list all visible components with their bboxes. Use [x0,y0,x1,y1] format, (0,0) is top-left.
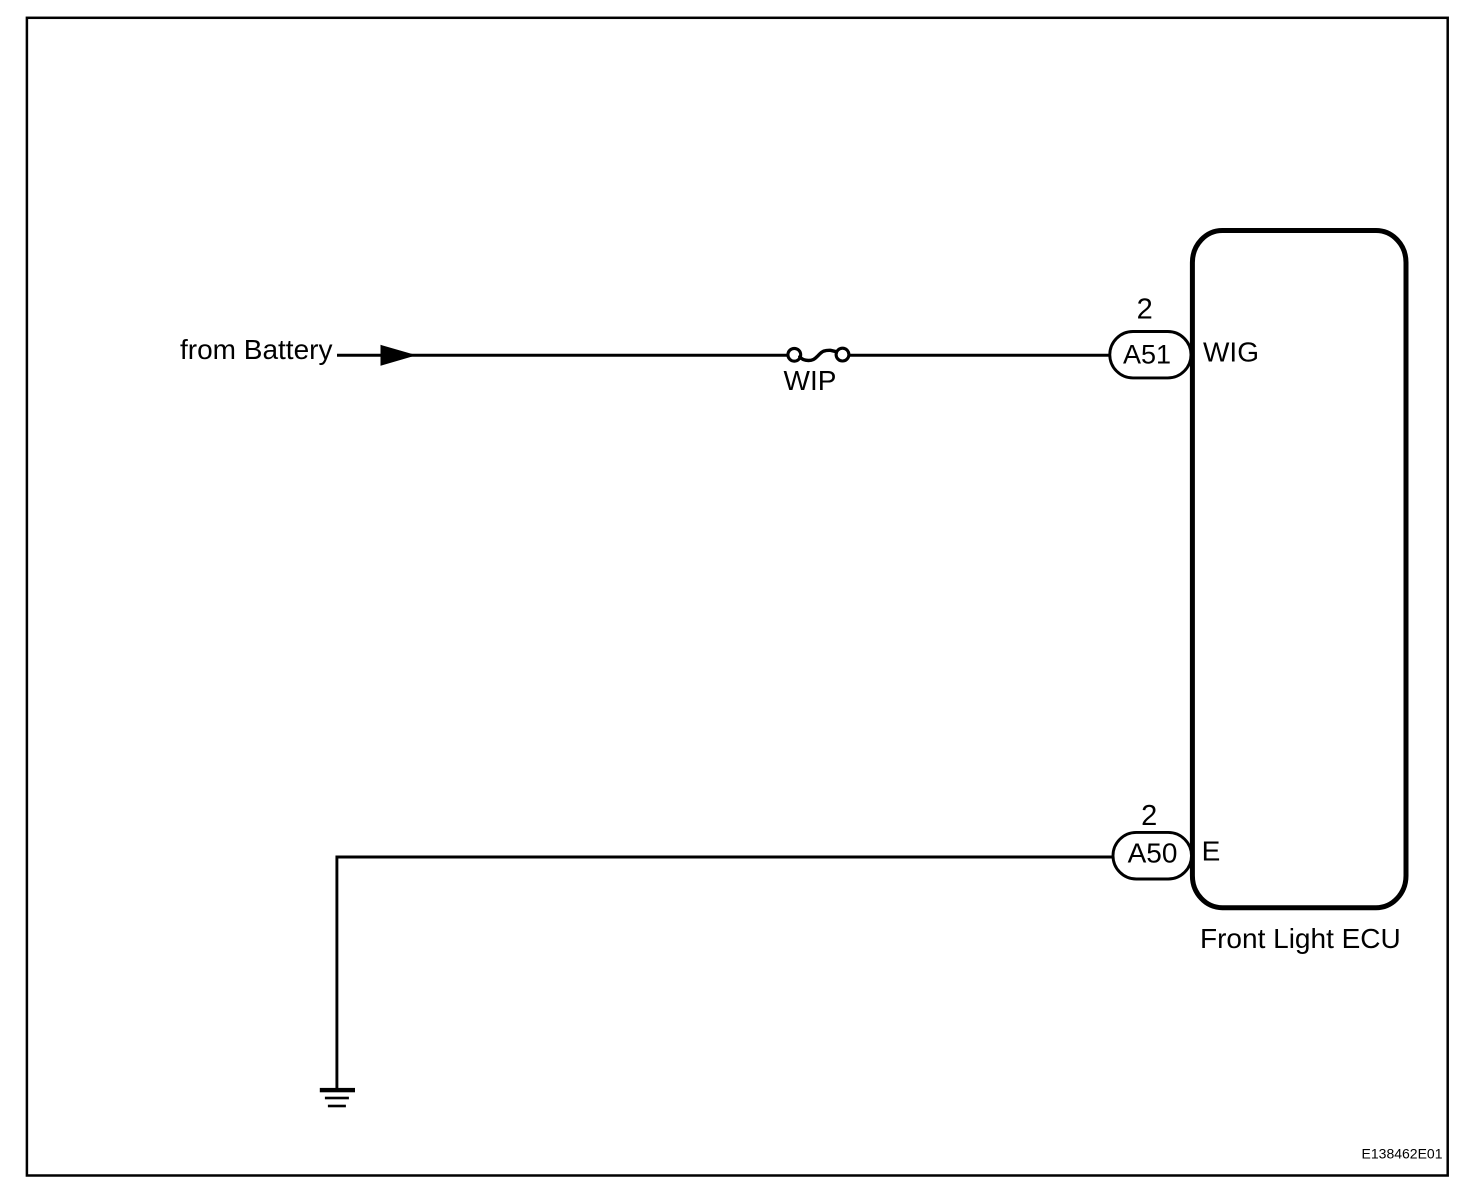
svg-text:A51: A51 [1123,340,1171,370]
fuse WIP [788,348,849,361]
svg-text:Front Light ECU: Front Light ECU [1200,923,1401,954]
svg-text:from Battery: from Battery [180,334,332,365]
svg-text:A50: A50 [1128,838,1178,869]
connector A50 [1113,832,1192,879]
arrow (power feed from Battery) [381,345,417,366]
wire from Battery feed to fuse [337,354,788,357]
ground [320,1088,355,1107]
wire from fuse to connector A51 [850,354,1111,357]
svg-text:2: 2 [1141,800,1157,832]
svg-text:WIP: WIP [784,365,837,396]
svg-text:E: E [1202,835,1221,866]
ECU box (Front Light ECU) [1192,231,1406,908]
svg-text:WIG: WIG [1203,337,1259,368]
svg-text:2: 2 [1137,294,1153,326]
svg-text:E138462E01: E138462E01 [1362,1146,1443,1162]
wire to ground (vertical) [335,856,338,1091]
wire from connector A50 to ground (horizontal) [336,856,1115,859]
connector A51 [1110,332,1191,378]
